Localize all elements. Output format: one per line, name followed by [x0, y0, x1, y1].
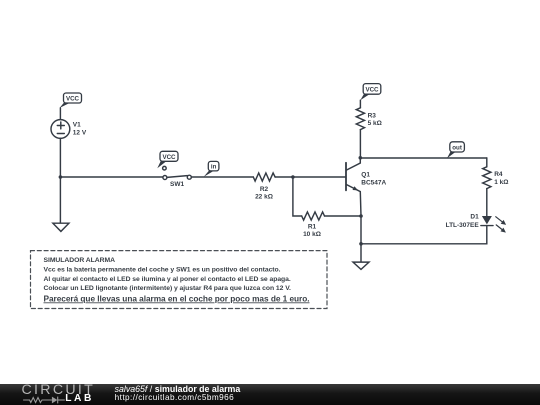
resistor R2	[253, 173, 275, 181]
wire V1 bottom to junction	[59, 138, 61, 177]
svg-text:22 kΩ: 22 kΩ	[255, 193, 273, 200]
svg-text:SW1: SW1	[170, 181, 184, 188]
wire junction to SW1	[60, 176, 163, 178]
ground at Q1 emitter	[353, 262, 369, 269]
svg-text:VCC: VCC	[162, 154, 176, 161]
resistor R1	[302, 212, 325, 220]
svg-text:D1: D1	[470, 214, 479, 221]
svg-text:R4: R4	[494, 171, 503, 178]
node junction collector / R3 / out	[359, 156, 363, 160]
wire LED down and left to emitter net	[361, 226, 487, 244]
svg-text:LTL-307EE: LTL-307EE	[446, 222, 480, 229]
wire down to ground	[59, 177, 61, 223]
footer url	[115, 393, 235, 402]
wire down to R4	[486, 158, 488, 167]
svg-text:5 kΩ: 5 kΩ	[368, 120, 382, 127]
svg-text:12 V: 12 V	[73, 129, 87, 136]
wire SW1 to R2	[191, 176, 253, 178]
svg-text:R2: R2	[260, 186, 269, 193]
footer bar	[0, 384, 540, 405]
LED D1	[481, 216, 506, 233]
svg-text:R3: R3	[368, 113, 377, 120]
label R3 5 kOhm	[368, 113, 382, 127]
CircuitLab logo	[22, 382, 96, 398]
annotation box SIMULADOR ALARMA	[31, 251, 328, 309]
svg-text:V1: V1	[73, 122, 81, 129]
wire junction to Q1 base	[293, 176, 346, 178]
switch SW1	[163, 166, 192, 179]
svg-text:VCC: VCC	[365, 87, 379, 94]
wire R1 to emitter node	[325, 215, 362, 217]
wire R4 to LED	[486, 189, 488, 216]
svg-text:VCC: VCC	[66, 96, 80, 103]
label D1 LTL-307EE	[446, 214, 480, 230]
svg-text:Al quitar el contacto el LED s: Al quitar el contacto el LED se ilumina …	[44, 276, 291, 283]
svg-text:Parecerá que llevas una alarma: Parecerá que llevas una alarma en el coc…	[44, 293, 310, 303]
svg-text:R1: R1	[308, 224, 317, 231]
resistor R4	[483, 167, 491, 189]
node junction V1 / SW1	[59, 175, 63, 179]
label R2 22 kOhm	[255, 186, 273, 200]
footer title	[115, 384, 241, 394]
power flag VCC at V1	[60, 93, 82, 108]
power flag VCC at R3	[360, 84, 381, 101]
node junction bottom	[359, 242, 363, 246]
wire R2 to junction	[275, 176, 293, 178]
transistor Q1	[346, 158, 361, 216]
label R1 10 kOhm	[303, 224, 321, 238]
label V1 12 V	[73, 122, 87, 137]
label Q1 BC547A	[361, 172, 386, 187]
svg-text:10 kΩ: 10 kΩ	[303, 231, 321, 238]
svg-text:1 kΩ: 1 kΩ	[494, 179, 508, 186]
voltage source V1	[51, 120, 70, 139]
svg-text:BC547A: BC547A	[361, 180, 386, 187]
wire VCC to R3	[359, 100, 361, 108]
power flag VCC at SW1 throw	[157, 151, 178, 168]
node junction R1 / emitter	[359, 214, 363, 218]
svg-text:Colocar un LED lignotante (int: Colocar un LED lignotante (intermitente)…	[44, 285, 292, 292]
svg-text:Vcc es la bateria permanente d: Vcc es la bateria permanente del coche y…	[44, 266, 281, 273]
wire junction down to R1	[293, 177, 302, 216]
svg-text:in: in	[211, 164, 217, 171]
wire emitter node down	[360, 216, 362, 244]
net flag in	[204, 161, 219, 176]
svg-text:Q1: Q1	[361, 172, 370, 179]
label R4 1 kOhm	[494, 171, 508, 186]
ground left	[53, 223, 69, 231]
svg-text:out: out	[452, 145, 462, 152]
wire VCC flag to V1 top	[59, 108, 61, 120]
net flag out	[447, 142, 464, 158]
wire to ground	[360, 244, 362, 262]
svg-text:SIMULADOR ALARMA: SIMULADOR ALARMA	[44, 257, 116, 264]
node junction R2 / R1 / base	[291, 175, 295, 179]
wire R3 to collector junction	[359, 130, 361, 158]
wire collector node to out branch	[360, 157, 487, 159]
resistor R3	[356, 108, 364, 130]
